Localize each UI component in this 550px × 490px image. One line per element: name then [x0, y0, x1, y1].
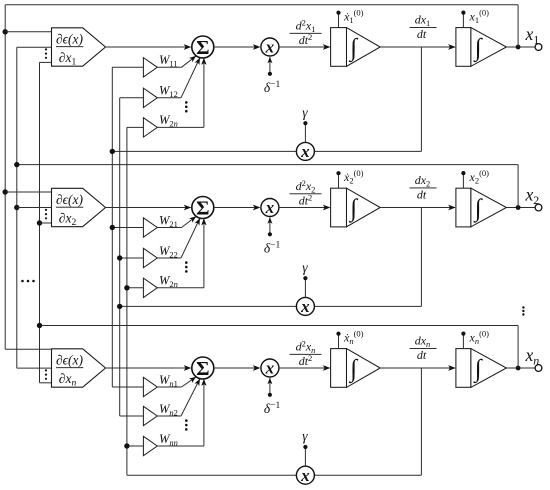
svg-text:γ: γ	[302, 260, 308, 275]
svg-text:∫: ∫	[348, 195, 358, 223]
integrator I1b	[456, 28, 471, 67]
wire integrator1 to integrator2	[380, 207, 455, 209]
wire initial condition 2	[462, 173, 464, 188]
node W bus2 row2	[117, 255, 122, 260]
node delta source	[268, 393, 272, 397]
wire gamma pickup vertical	[420, 368, 422, 475]
wire Wn1 input	[112, 386, 143, 388]
node initial condition 1	[336, 11, 340, 15]
wire initial condition 1	[338, 173, 340, 188]
wire gamma pickup vertical	[420, 208, 422, 307]
node output xn	[516, 366, 521, 371]
wire gamma feedback horizontal right	[314, 474, 421, 476]
wire xn left bus vertical	[39, 62, 41, 382]
terminal x1	[535, 44, 542, 51]
svg-text:dt: dt	[417, 188, 427, 202]
node W busn row3	[124, 443, 129, 448]
node W busn row2	[124, 285, 129, 290]
node initial condition 1	[336, 332, 340, 336]
svg-text:∂ϵ(x): ∂ϵ(x)	[56, 352, 84, 367]
svg-text:∫: ∫	[473, 35, 483, 63]
multiplier M2b gamma	[296, 297, 314, 315]
node gamma source	[303, 276, 307, 280]
wire initial condition 2	[462, 13, 464, 28]
integrator I2a	[331, 188, 347, 227]
wire x1 feedback vertical	[517, 5, 519, 47]
svg-text:x: x	[265, 198, 275, 217]
svg-text:x: x	[300, 466, 310, 485]
svg-text:γ: γ	[302, 105, 308, 120]
wire W bus n vertical	[126, 127, 128, 475]
wire W12 output	[157, 97, 181, 99]
node initial condition 2	[461, 11, 465, 15]
wire summer to multiplier	[214, 46, 260, 48]
multiplier M3b gamma	[296, 466, 314, 484]
wire multiplier to integrator1	[279, 367, 330, 369]
wire block input 3	[40, 382, 52, 384]
wire initial condition 1	[338, 334, 340, 349]
wire block to summer	[106, 207, 191, 209]
wire initial condition 1	[338, 13, 340, 28]
wire block input 1	[5, 191, 51, 193]
terminal x2	[535, 204, 542, 211]
amplifier Wn1	[143, 377, 157, 396]
node output x2	[516, 205, 521, 210]
wire W2n output	[157, 126, 204, 128]
wire W bus 2 vertical	[119, 98, 121, 416]
svg-text:x: x	[300, 142, 310, 161]
wire W bus 1 vertical	[111, 67, 113, 387]
amplifier Wnn	[143, 436, 157, 455]
wire gamma input stub	[304, 447, 306, 466]
wire Wn1 output	[157, 386, 181, 388]
op-amp summer S1	[192, 36, 214, 58]
amplifier W22	[143, 248, 157, 267]
integrator I1a	[331, 28, 347, 67]
op-amp summer S3	[192, 357, 214, 379]
node initial condition 2	[461, 332, 465, 336]
svg-text:Σ: Σ	[196, 37, 209, 59]
wire Wnn output	[157, 445, 204, 447]
wire gamma feedback horizontal left	[120, 305, 297, 307]
label block input vdots	[45, 369, 47, 371]
wire W22 input	[120, 257, 144, 259]
wire block to summer	[106, 367, 191, 369]
node initial condition 2	[461, 171, 465, 175]
node initial condition 1	[336, 171, 340, 175]
wire delta input	[269, 57, 271, 74]
wire W22 output	[157, 257, 181, 259]
amplifier W11	[143, 58, 157, 77]
node xn bus to row2 input	[37, 220, 42, 225]
wire x1 left bus vertical	[4, 5, 6, 350]
terminal xn	[535, 365, 542, 372]
op-amp summer S2	[192, 197, 214, 219]
amplifier Wn2	[143, 406, 157, 425]
label W column vdots	[185, 419, 188, 422]
wire delta input	[269, 378, 271, 395]
wire x2 feedback horizontal	[17, 164, 518, 166]
block dE/dx2 U2	[52, 188, 106, 226]
svg-text:x: x	[265, 359, 275, 378]
label block input vdots	[45, 48, 47, 50]
wire block input 3	[40, 61, 52, 63]
svg-text:∂ϵ(x): ∂ϵ(x)	[56, 31, 84, 46]
multiplier M2a	[261, 199, 279, 217]
wire block input 1	[5, 31, 51, 33]
wire gamma feedback horizontal left	[112, 150, 296, 152]
wire x2 left bus vertical	[16, 47, 18, 368]
svg-text:∫: ∫	[348, 356, 358, 384]
wire integrator1 to integrator2	[380, 367, 455, 369]
wire integrator2 to terminal	[506, 367, 535, 369]
multiplier M3a	[261, 359, 279, 377]
wire Wn2 output	[157, 415, 181, 417]
svg-text:Σ: Σ	[196, 197, 209, 219]
node gamma source	[303, 445, 307, 449]
wire x2 feedback vertical	[517, 165, 519, 208]
wire W2n output	[157, 287, 204, 289]
svg-text:x: x	[300, 297, 310, 316]
svg-text:Σ: Σ	[196, 358, 209, 380]
amplifier W21	[143, 218, 157, 237]
wire block input 2	[17, 46, 52, 48]
node output x1	[516, 45, 521, 50]
multiplier M1a	[261, 38, 279, 56]
label block input vdots	[45, 209, 47, 211]
wire W21 input	[112, 227, 143, 229]
node xn feedback junction	[37, 323, 42, 328]
wire block input 3	[40, 222, 52, 224]
wire W11 input	[112, 66, 143, 68]
amplifier W2n	[143, 118, 157, 137]
wire multiplier to integrator1	[279, 207, 330, 209]
svg-text:∫: ∫	[473, 195, 483, 223]
svg-text:∂ϵ(x): ∂ϵ(x)	[56, 192, 84, 207]
wire delta input	[269, 218, 271, 235]
wire x1 feedback top horizontal	[5, 4, 518, 6]
wire integrator1 to integrator2	[380, 46, 455, 48]
label ellipsis left bus	[21, 280, 24, 283]
wire W11 output	[157, 66, 181, 68]
amplifier W12	[143, 88, 157, 107]
label W column vdots	[185, 101, 188, 104]
wire block input 2	[17, 367, 52, 369]
wire summer to multiplier	[214, 367, 260, 369]
svg-text:x: x	[265, 38, 275, 57]
wire block input 2	[17, 207, 52, 209]
node delta source	[268, 232, 272, 236]
wire gamma pickup vertical	[420, 47, 422, 151]
node W bus1 row2	[110, 225, 115, 230]
svg-text:∫: ∫	[348, 35, 358, 63]
node gamma to W bus	[110, 149, 115, 154]
wire integrator2 to terminal	[506, 46, 535, 48]
wire W12 input	[120, 97, 144, 99]
wire initial condition 2	[462, 334, 464, 349]
label ellipsis right side	[522, 306, 524, 308]
integrator I2b	[456, 188, 471, 227]
node x2 bus to row2 input	[14, 205, 19, 210]
node x1 bus to row2 input	[2, 189, 7, 194]
wire gamma input stub	[304, 123, 306, 142]
wire W2n input	[127, 126, 143, 128]
block dE/dx1 U1	[52, 28, 106, 66]
multiplier M1b gamma	[296, 142, 314, 160]
wire xn feedback horizontal	[40, 325, 519, 327]
wire summer to multiplier	[214, 207, 260, 209]
wire gamma feedback horizontal left	[127, 474, 297, 476]
amplifier W2n	[143, 278, 157, 297]
svg-text:γ: γ	[302, 429, 308, 444]
wire Wn2 input	[120, 415, 144, 417]
label W column vdots	[185, 261, 188, 264]
wire W2n input	[127, 287, 143, 289]
integrator I3b	[456, 349, 471, 388]
node x1 bus to row1 input	[2, 29, 7, 34]
wire block input 1	[5, 348, 51, 350]
node gamma to W bus	[117, 304, 122, 309]
block dE/dxn U3	[52, 349, 106, 387]
wire multiplier to integrator1	[279, 46, 330, 48]
wire gamma input stub	[304, 278, 306, 297]
node delta source	[268, 72, 272, 76]
svg-text:∫: ∫	[473, 356, 483, 384]
wire block to summer	[106, 46, 191, 48]
node gamma source	[303, 121, 307, 125]
svg-text:dt: dt	[417, 348, 427, 362]
wire W21 output	[157, 227, 181, 229]
wire gamma feedback horizontal right	[314, 305, 421, 307]
wire xn feedback vertical	[517, 326, 519, 369]
node x2 feedback junction	[14, 162, 19, 167]
svg-text:dt: dt	[417, 27, 427, 41]
wire Wnn input	[127, 445, 143, 447]
wire integrator2 to terminal	[506, 207, 535, 209]
integrator I3a	[331, 349, 347, 388]
wire gamma feedback horizontal right	[314, 150, 421, 152]
